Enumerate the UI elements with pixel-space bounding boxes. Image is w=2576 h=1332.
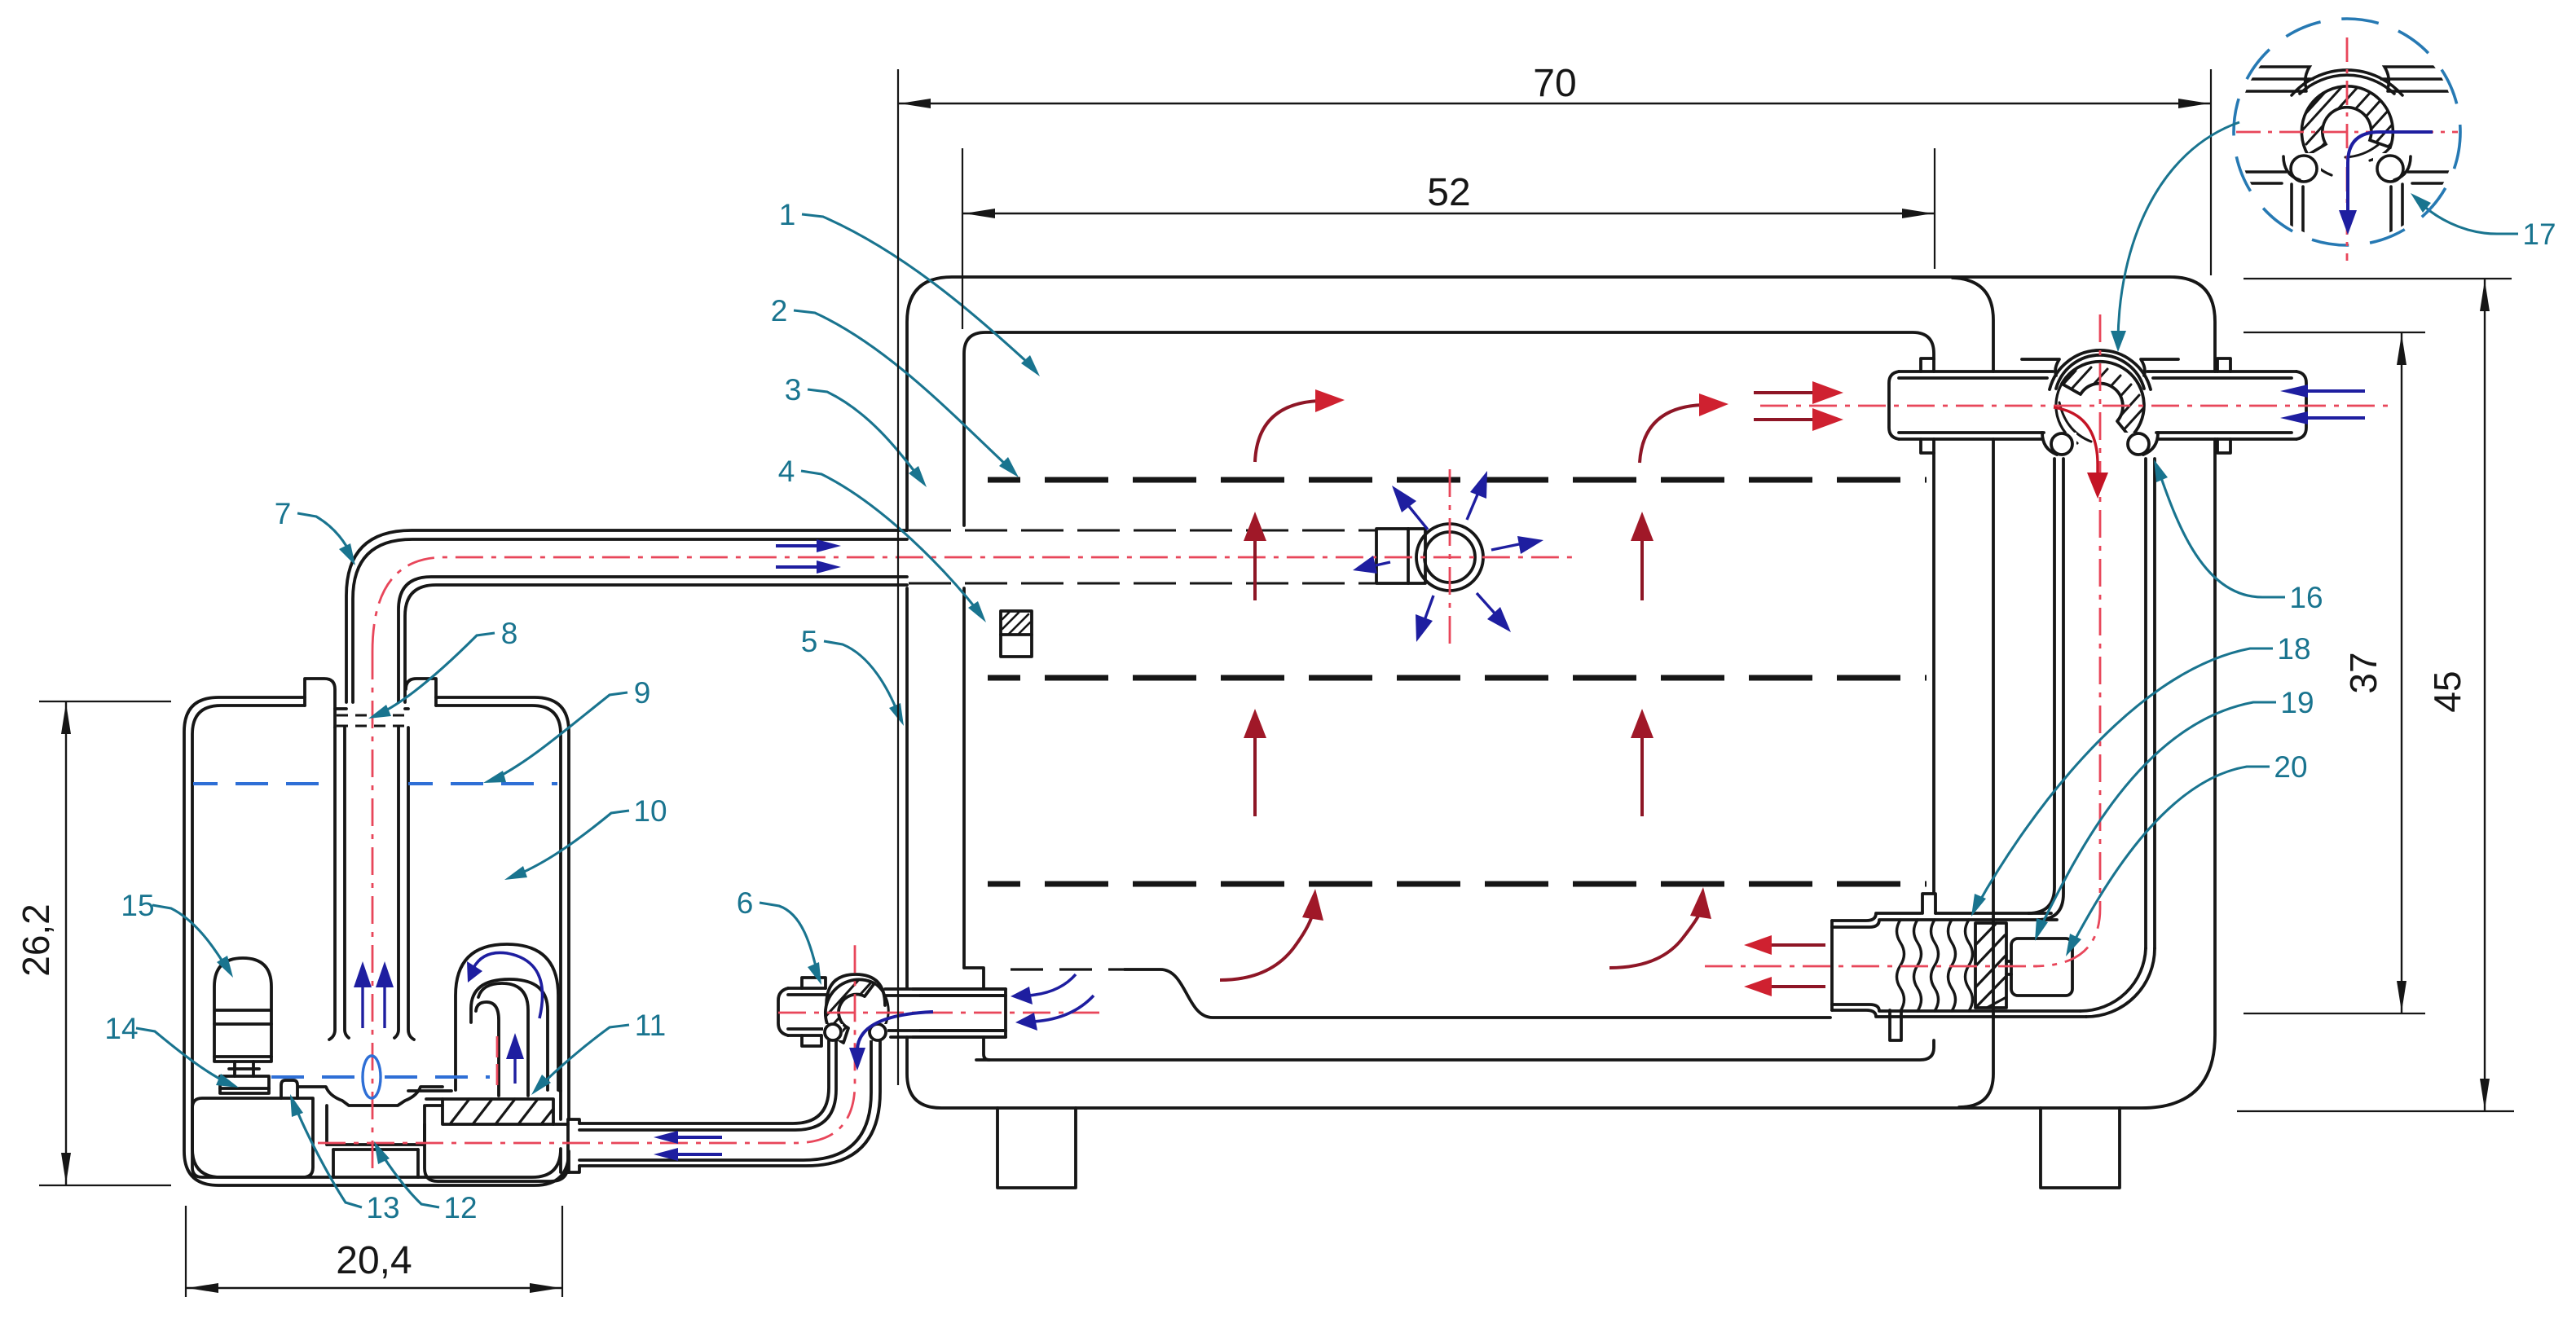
label 12 leader: [374, 1141, 478, 1224]
chamber outer housing: [907, 277, 2215, 1108]
spray fan circles: [1416, 524, 1483, 591]
pump body right: [425, 1119, 579, 1181]
label 11 leader: [531, 1009, 666, 1095]
valve 6 body: [778, 974, 1006, 1046]
dimension 45: [2237, 279, 2514, 1111]
svg-text:26,2: 26,2: [15, 903, 57, 977]
detail navy flow arrow: [2339, 132, 2433, 235]
red up arrow col1 upper: [1244, 512, 1266, 600]
top pipe riser from tank: [346, 530, 907, 702]
label 1 leader: [779, 198, 1040, 376]
svg-text:9: 9: [634, 676, 651, 710]
valve 16 tabs: [1921, 358, 2230, 453]
svg-text:18: 18: [2277, 632, 2310, 666]
STRUCTURE: [184, 277, 2306, 1188]
top right pipe to valve 16: [1889, 371, 2306, 439]
red curved arrow top col2: [1640, 393, 1728, 463]
label 6 leader: [737, 886, 821, 985]
chamber left foot: [997, 1108, 1076, 1188]
detail valve enlarged: [2238, 67, 2456, 244]
svg-text:4: 4: [778, 455, 795, 488]
svg-text:37: 37: [2342, 652, 2384, 693]
water level lower dashed: [271, 1075, 359, 1079]
svg-text:5: 5: [801, 625, 818, 658]
pump outlet bottom pipe: [579, 1036, 880, 1166]
red curved arrow top col1: [1255, 389, 1345, 462]
red up arrow col2 middle: [1631, 709, 1653, 816]
valve 6 seats: [823, 1024, 887, 1040]
right compartment floor: [408, 1089, 561, 1092]
svg-text:7: 7: [275, 497, 292, 530]
box 20: [2006, 939, 2072, 996]
svg-text:11: 11: [635, 1009, 666, 1042]
red J arrow col2 lower: [1609, 887, 1711, 968]
svg-text:16: 16: [2289, 581, 2323, 614]
svg-text:13: 13: [366, 1191, 399, 1224]
centerline pump outlet to valve 6: [318, 943, 855, 1143]
svg-text:8: 8: [501, 617, 518, 650]
dimension 70: [898, 62, 2211, 1085]
small stub 13: [281, 1080, 297, 1098]
centerline top pipe: [372, 557, 1579, 652]
svg-text:3: 3: [785, 373, 802, 407]
chamber floor with step: [1011, 969, 1830, 1018]
label 13 leader: [290, 1094, 400, 1224]
dimension 26,2: [15, 701, 171, 1185]
label 17 leader: [2411, 193, 2556, 251]
svg-text:10: 10: [633, 794, 667, 828]
svg-text:19: 19: [2280, 686, 2314, 719]
svg-text:1: 1: [779, 198, 796, 231]
spray fan hub: [1376, 529, 1425, 583]
red J arrow col1 lower: [1220, 889, 1323, 980]
screw 19 hatched: [1975, 923, 2006, 1008]
tank neck: [305, 679, 436, 728]
navy curl arrow in U-duct: [467, 952, 543, 1018]
DETAIL: [2111, 19, 2460, 352]
label 10 leader: [504, 794, 667, 880]
float 15: [214, 958, 271, 1093]
bellows tabs: [1890, 894, 1935, 1040]
label 15 leader: [121, 889, 233, 978]
label 5 leader: [801, 625, 904, 726]
NAVY ARROWS: [354, 385, 2365, 1161]
U-duct overflow: [456, 944, 558, 1090]
component 8 dashed screen: [337, 715, 407, 726]
centerline fan vertical: [1449, 469, 1451, 645]
bellows elbow: [2081, 948, 2155, 1017]
navy curved arrows into sump: [1011, 974, 1094, 1031]
tank floor dish and pump cavity: [299, 1087, 443, 1177]
svg-text:12: 12: [443, 1191, 477, 1224]
rack shelf dashed row 2: [988, 675, 1926, 681]
svg-text:45: 45: [2426, 670, 2468, 712]
label 3 leader: [785, 373, 927, 487]
red up arrow col2 upper: [1631, 512, 1653, 600]
hidden spray pipe dashes: [909, 530, 1376, 583]
navy flow arrows in bottom pipe: [654, 1131, 722, 1161]
red inflow arrows to valve 16: [1754, 381, 1843, 431]
red outflow arrows at bellows: [1744, 935, 1825, 996]
valve 16 dome and shoulders: [2022, 350, 2178, 389]
rack shelf dashed row 3: [988, 881, 1926, 887]
RED ARROWS: [1220, 381, 2108, 996]
svg-text:6: 6: [737, 886, 754, 920]
red up arrow col1 middle: [1244, 709, 1266, 816]
svg-text:70: 70: [1533, 62, 1576, 105]
centerline valve 6 horizontal: [778, 1012, 1102, 1014]
centerline bellows: [1705, 965, 2037, 968]
label 9 leader: [483, 676, 650, 783]
label 2 leader: [771, 294, 1019, 477]
sump left structure: [913, 968, 1006, 1060]
LEADERS: [104, 193, 2556, 1224]
navy inflow arrows right pipe: [2280, 385, 2365, 424]
centerline valve 16 vertical and duct: [2033, 314, 2100, 966]
impeller hatched: [426, 1099, 553, 1124]
component 4 hatched box: [1001, 611, 1032, 657]
navy flow arrows in top pipe: [776, 539, 841, 574]
rack shelf dashed row 1: [988, 477, 1926, 483]
chamber right foot: [2041, 1108, 2120, 1188]
detail circle dashed boundary: [2234, 19, 2460, 245]
svg-text:15: 15: [121, 889, 154, 922]
centerline hook tube: [496, 1036, 499, 1092]
label 18 leader: [1971, 632, 2311, 917]
label 19 leader: [2035, 686, 2314, 941]
bellows waves: [1897, 920, 1973, 1011]
water level upper dashed: [193, 782, 335, 785]
navy fan spray arrows: [1353, 471, 1543, 642]
dimension 20,4: [186, 1206, 562, 1297]
valve 16 ball hatched: [2047, 362, 2148, 446]
dimension 37: [2244, 332, 2425, 1013]
svg-text:52: 52: [1427, 171, 1470, 214]
navy up arrow in hook tube: [506, 1033, 524, 1084]
svg-text:20,4: 20,4: [336, 1239, 412, 1282]
label 20 leader: [2066, 750, 2308, 956]
label 14 leader: [104, 1012, 239, 1088]
tank bottom left box: [192, 1098, 313, 1177]
bellows housing: [1832, 913, 2086, 1017]
label 16 leader: [2154, 459, 2323, 614]
water oval: [363, 1056, 381, 1098]
svg-text:17: 17: [2522, 218, 2556, 251]
label 4 leader: [778, 455, 986, 622]
svg-text:20: 20: [2274, 750, 2307, 784]
navy up arrows in center tube: [354, 961, 394, 1028]
vertical duct: [2028, 459, 2155, 948]
valve 6 ball hatched: [812, 969, 888, 1051]
WATER: [193, 784, 557, 1098]
label 8 leader: [368, 617, 517, 719]
label 7 leader: [275, 497, 355, 565]
chamber inner liner: [964, 332, 1934, 1060]
chamber shell right wall: [1953, 278, 1993, 1107]
svg-text:2: 2: [771, 294, 788, 328]
CENTERLINES: [318, 314, 2388, 1173]
svg-text:14: 14: [104, 1012, 138, 1045]
navy down arrow at valve 6: [849, 1012, 933, 1070]
tank center tube: [329, 728, 414, 1040]
hook tube: [476, 983, 528, 1096]
leader detail circle to valve 16: [2111, 122, 2239, 352]
tank outer body: [184, 697, 569, 1185]
centerline valve 16 horizontal: [1760, 405, 2388, 407]
dimension 52: [962, 148, 1935, 329]
valve 16 seats: [2042, 433, 2158, 456]
red down arrow in valve 16: [2054, 407, 2108, 499]
centerline tank tube pump: [372, 652, 374, 1173]
detail red crosshair: [2236, 37, 2458, 261]
